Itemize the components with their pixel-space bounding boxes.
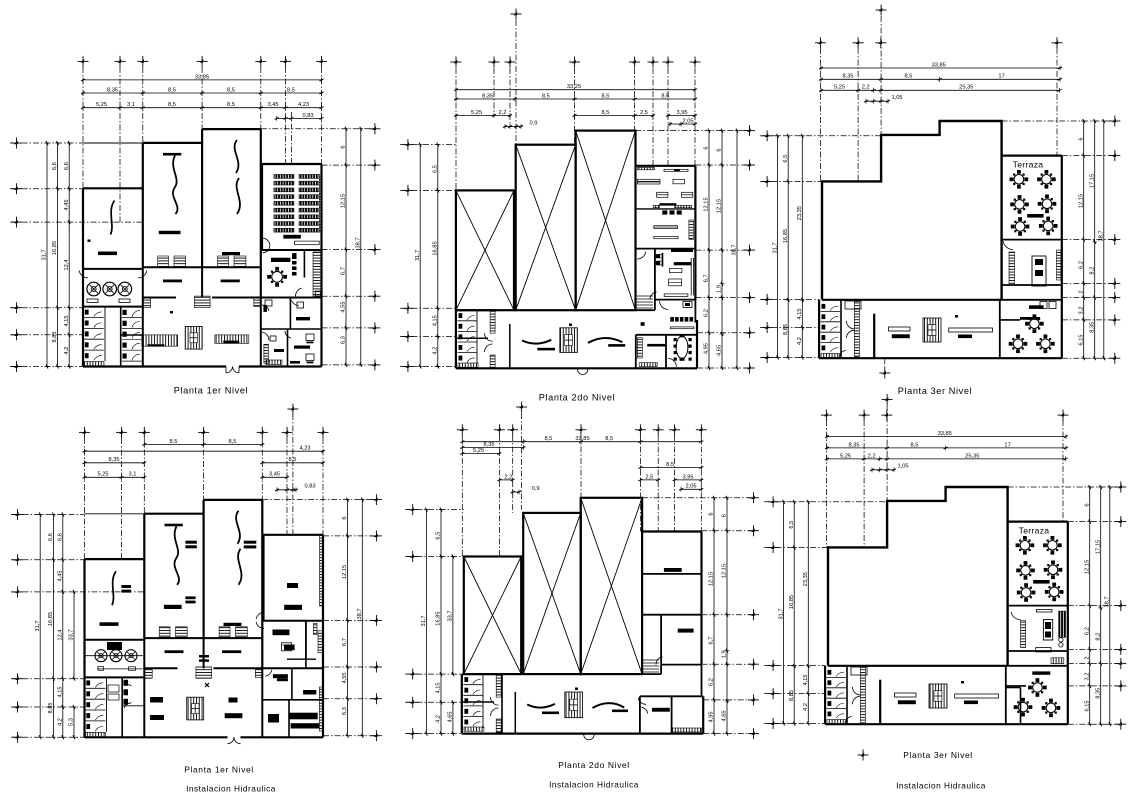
comb under wall plan2	[637, 167, 654, 169]
kitchen door swing a	[79, 271, 88, 278]
right wing walls plan6	[1008, 650, 1068, 652]
box plan4 wc a	[108, 685, 119, 692]
grid line to label plan3	[884, 358, 886, 368]
kitchen counter comb plan6	[1021, 621, 1026, 648]
skylight box3 plan5	[581, 498, 642, 674]
svg-text:0,9: 0,9	[532, 486, 540, 492]
grid line	[10, 307, 83, 309]
dim 0,83 plan1	[277, 117, 322, 119]
grid axis marker plan3 top	[853, 37, 864, 48]
dot lobby plan1	[170, 311, 173, 313]
dim chain plan2 right b	[721, 131, 723, 368]
svg-text:4,15: 4,15	[436, 682, 442, 693]
curtain waves hall2 plan1	[235, 140, 239, 173]
grid line	[400, 336, 456, 338]
grid axis marker plan5 top	[696, 424, 707, 435]
side seat comb plan1	[319, 175, 321, 233]
svg-text:0,9: 0,9	[530, 121, 538, 127]
seat row L	[274, 195, 294, 199]
hatched wall strip plan6	[860, 668, 865, 724]
svg-text:8,5: 8,5	[229, 439, 237, 445]
grid axis marker plan1 top	[137, 56, 148, 67]
svg-text:31,7: 31,7	[772, 242, 778, 253]
dim chain plan6 left b	[807, 502, 809, 724]
svg-text:6,2: 6,2	[1078, 261, 1084, 269]
round table with chairs	[1016, 536, 1035, 555]
grid line	[642, 497, 753, 499]
grid axis marker plan1 right	[369, 322, 380, 333]
svg-text:Planta 3er Nivel: Planta 3er Nivel	[903, 750, 973, 760]
grid line	[1062, 297, 1115, 299]
grid axis marker plan4 top	[139, 427, 150, 438]
svg-text:6,3: 6,3	[341, 336, 347, 344]
grid line	[322, 249, 375, 251]
entry porch plan5	[584, 735, 594, 740]
svg-text:8,35: 8,35	[1095, 688, 1101, 699]
svg-text:12,15: 12,15	[1084, 560, 1090, 574]
dim 31,7 plan1 left	[46, 143, 48, 367]
door swing plan3 corr b	[846, 330, 854, 338]
grid axis marker plan6 right	[1115, 516, 1126, 527]
curve left room plan1	[111, 201, 115, 235]
grid axis marker plan4 tall	[287, 404, 298, 415]
dim row C2 plan4	[262, 462, 323, 464]
urinal row plan3	[821, 354, 840, 358]
grid axis marker plan1 right	[369, 244, 380, 255]
sideboard bar plan1	[271, 258, 290, 262]
grid axis marker plan1 left	[11, 138, 22, 149]
bar strip plan3	[1029, 305, 1044, 309]
curtain wave	[173, 156, 178, 215]
chair plan2 a	[662, 210, 667, 214]
hatched wall plan2 wc a	[490, 310, 495, 333]
chair comb plan2 room	[637, 338, 642, 358]
svg-text:2,2: 2,2	[499, 110, 507, 116]
grid line	[323, 735, 376, 737]
lobby top wall plan1	[143, 297, 176, 299]
grid axis marker plan2 tall	[511, 9, 522, 20]
svg-text:6,5: 6,5	[783, 155, 789, 163]
svg-text:Planta 1er Nivel: Planta 1er Nivel	[184, 765, 254, 775]
dim 5,3 plan4	[73, 707, 75, 737]
bottom band walls plan5	[461, 674, 463, 734]
hatched element	[144, 668, 152, 678]
mark plan2 corridor	[641, 322, 645, 326]
svg-text:8,35: 8,35	[482, 93, 493, 99]
svg-text:8,5: 8,5	[227, 102, 235, 108]
counter bottom plan6	[1036, 648, 1051, 652]
pipe pair a1 plan4	[185, 541, 196, 544]
grid axis marker plan4 left	[12, 732, 23, 743]
seat row L	[274, 215, 294, 219]
grid line	[10, 334, 83, 336]
mid horizontal wall plan1	[143, 266, 261, 268]
tank plan4	[107, 642, 122, 650]
svg-text:6,6: 6,6	[52, 162, 58, 170]
svg-text:Instalacion Hidraulica: Instalacion Hidraulica	[896, 781, 986, 791]
closet wall plan6 a	[1006, 687, 1021, 689]
grid axis marker plan1 top	[280, 56, 291, 67]
svg-text:38,7: 38,7	[357, 608, 363, 619]
dim total plan3	[821, 67, 1060, 69]
grid tall plan5	[521, 413, 523, 510]
left room walls plan1	[83, 187, 143, 189]
dim row B plan4	[85, 450, 324, 452]
main hall outline plan6	[828, 487, 1008, 666]
grid line	[764, 664, 825, 666]
closet wall plan6 b	[1020, 688, 1022, 725]
skylight box2 plan5	[523, 513, 581, 674]
middle hall walls plan1	[143, 142, 202, 144]
grid line	[1068, 663, 1121, 665]
right tall room fixtures plan4	[287, 583, 298, 588]
svg-text:4,2: 4,2	[58, 718, 64, 726]
svg-text:8,85: 8,85	[789, 690, 795, 701]
dim row3c plan2	[668, 115, 695, 117]
grid line	[1008, 486, 1121, 488]
grid axis marker plan5 right	[748, 492, 759, 503]
grid axis marker plan2 top	[505, 57, 516, 68]
floor curve plan2 b	[588, 338, 622, 343]
table bar left room plan1	[98, 252, 117, 256]
grid line	[695, 297, 749, 299]
grid axis marker plan6 top	[881, 410, 892, 421]
dim chain plan5 left	[440, 510, 442, 734]
grid line	[10, 366, 83, 368]
urinal row plan5	[464, 727, 484, 731]
grid axis marker plan5 left	[407, 551, 418, 562]
round table with chairs	[1025, 314, 1044, 333]
grid line	[695, 249, 749, 251]
round table with chairs	[1045, 583, 1064, 602]
svg-text:8,35: 8,35	[483, 442, 494, 448]
svg-text:6,2: 6,2	[1084, 627, 1090, 635]
toilet stalls	[85, 680, 105, 731]
curtain wave	[174, 526, 179, 585]
dim row2 plan1	[83, 92, 322, 94]
dim 31,7 plan3	[777, 136, 779, 358]
bottom marker plan6	[858, 750, 869, 761]
svg-text:4,95: 4,95	[704, 343, 710, 354]
svg-text:16,85: 16,85	[436, 611, 442, 625]
grid line	[636, 130, 750, 132]
svg-text:8,85: 8,85	[783, 324, 789, 335]
hatched element	[827, 720, 846, 724]
svg-text:12,4: 12,4	[64, 259, 70, 270]
grid line	[702, 530, 754, 532]
svg-text:4,2: 4,2	[803, 703, 809, 711]
door swing corridor	[262, 332, 269, 340]
grid axis marker plan3 right	[1109, 234, 1120, 245]
round table with chairs	[1038, 195, 1057, 214]
kitchen door swing b	[138, 271, 147, 278]
svg-text:16,85: 16,85	[52, 241, 58, 255]
svg-text:38,7: 38,7	[732, 244, 738, 255]
svg-text:6: 6	[1084, 503, 1090, 506]
dot plan5	[575, 688, 578, 691]
svg-text:6,7: 6,7	[704, 274, 710, 282]
svg-text:17,15: 17,15	[1089, 174, 1095, 188]
svg-text:33,7: 33,7	[448, 610, 454, 621]
door swing plan2 wc b	[485, 344, 493, 352]
grid axis marker plan6 right	[1115, 658, 1126, 669]
dim 38,7 plan2	[736, 131, 738, 368]
seat row L	[274, 222, 294, 226]
svg-text:2,2: 2,2	[504, 474, 512, 480]
right wall comb plan4	[320, 536, 324, 606]
grid line	[509, 68, 511, 127]
kitchen top wall plan1	[83, 268, 143, 270]
svg-text:4,95: 4,95	[709, 711, 715, 722]
dim 0,9 plan2	[505, 126, 521, 128]
grid axis marker plan3 right	[1109, 150, 1120, 161]
round table with chairs	[1039, 217, 1058, 236]
fixture below auditorium	[292, 253, 296, 257]
door swing plan2 corridor	[637, 252, 646, 259]
grid line	[697, 367, 750, 369]
grid axis marker plan6 tall	[882, 394, 893, 405]
right-top block walls plan2	[636, 165, 696, 167]
dim total plan6	[827, 436, 1066, 438]
grid line	[143, 438, 145, 514]
entrance double door plan1	[226, 367, 232, 373]
grid axis marker plan5 top	[669, 424, 680, 435]
grid line	[1062, 357, 1115, 359]
central staircase plan5	[565, 692, 583, 718]
pipe line plan4 b	[97, 668, 143, 670]
dim 0,9 plan5	[513, 491, 519, 493]
grid line	[703, 733, 753, 735]
grid line	[760, 135, 881, 137]
bottom wall plan1	[83, 365, 226, 367]
office door swing plan1	[292, 300, 300, 305]
grid line	[657, 435, 659, 532]
seat row R	[299, 181, 319, 185]
lobby hydraulic bars plan4	[150, 697, 163, 703]
grid axis marker plan1 top	[316, 56, 327, 67]
waves hall2 plan4	[236, 511, 240, 544]
grid axis marker plan4 right	[371, 530, 382, 541]
dim row2 plan2	[456, 98, 695, 100]
svg-text:3,45: 3,45	[267, 102, 278, 108]
slab edge plan4	[85, 513, 145, 515]
pipe pair a2 plan4	[185, 596, 195, 599]
round table with chairs	[1009, 335, 1028, 354]
grid line	[1068, 685, 1121, 687]
svg-text:2: 2	[1084, 656, 1090, 659]
auditorium walls plan1	[262, 163, 322, 165]
dot left room plan1	[88, 240, 91, 242]
grid line	[11, 591, 144, 593]
svg-text:3,95: 3,95	[682, 474, 693, 480]
dim chain plan3 left b	[801, 136, 803, 358]
svg-text:1,05: 1,05	[891, 95, 902, 101]
grid axis marker plan5 right	[748, 609, 759, 620]
grid axis marker plan2 right	[744, 363, 755, 374]
skylight box 3 plan2	[576, 131, 636, 311]
svg-text:3,45: 3,45	[269, 472, 280, 478]
urinal row plan1	[84, 362, 104, 367]
dining/office walls plan4	[262, 667, 323, 669]
hatched wall plan2 wc b	[490, 355, 495, 368]
grid axis marker plan3 right	[1109, 116, 1120, 127]
svg-text:Instalacion Hidraulica: Instalacion Hidraulica	[186, 784, 276, 794]
svg-text:12,4: 12,4	[58, 629, 64, 640]
svg-text:6,7: 6,7	[341, 267, 347, 275]
svg-text:33,85: 33,85	[938, 431, 952, 437]
grid line	[322, 327, 375, 329]
stair flight plan1 a	[158, 256, 169, 266]
grid line	[695, 164, 749, 166]
grid axis marker plan1 top	[255, 56, 266, 67]
svg-text:31,7: 31,7	[778, 608, 784, 619]
wall stub plan3	[873, 314, 875, 359]
grid axis marker plan2 top	[489, 57, 500, 68]
svg-text:8,5: 8,5	[287, 87, 295, 93]
grid axis marker plan2 top	[648, 57, 659, 68]
dim 3,95 plan5	[675, 479, 702, 481]
stage bar plan1	[283, 235, 301, 239]
svg-text:4,15: 4,15	[803, 674, 809, 685]
pipe pair d plan4	[199, 655, 209, 658]
svg-text:6: 6	[722, 514, 728, 517]
toilet block inner walls plan1	[120, 307, 122, 367]
door swing plan2 wc a	[485, 333, 493, 341]
svg-text:8,5: 8,5	[605, 436, 613, 442]
svg-text:2,2: 2,2	[862, 85, 870, 91]
svg-text:6: 6	[341, 145, 347, 148]
svg-text:2,5: 2,5	[640, 110, 648, 116]
svg-text:4,45: 4,45	[64, 199, 70, 210]
dim row3 plan1	[83, 107, 322, 109]
grid line	[11, 736, 85, 738]
dim row2 plan3	[821, 78, 1060, 80]
corridor stair steps plan2	[636, 295, 654, 297]
grid axis G plan1	[321, 67, 323, 164]
grid line	[121, 438, 123, 559]
cabinet plan3	[845, 301, 861, 309]
dark counter plan2	[671, 249, 693, 252]
grid line	[702, 663, 754, 665]
svg-text:6,15: 6,15	[1078, 334, 1084, 345]
round table with chairs	[1028, 678, 1047, 697]
svg-text:8,35: 8,35	[842, 74, 853, 80]
closet wall plan4	[305, 620, 307, 659]
svg-text:2,05: 2,05	[682, 118, 693, 124]
seat row R	[299, 222, 319, 226]
dim row A plan4	[144, 444, 262, 446]
svg-text:8,35: 8,35	[108, 457, 119, 463]
door swing plan4 right	[256, 622, 264, 629]
grid axis marker plan4 right	[371, 615, 382, 626]
counter plan3	[1009, 252, 1015, 285]
dim chain plan3 left a	[787, 136, 789, 358]
round table with chairs	[1044, 561, 1063, 580]
svg-text:8,85: 8,85	[52, 331, 58, 342]
grid axis marker plan2 left	[402, 361, 413, 372]
svg-text:4,2: 4,2	[64, 347, 70, 355]
grid axis marker plan2 top	[663, 57, 674, 68]
svg-text:6,3: 6,3	[342, 707, 348, 715]
grid line	[863, 420, 865, 547]
bar mid hall plan4	[164, 605, 182, 609]
grid line	[1068, 648, 1121, 650]
grid tall plan3	[880, 16, 882, 135]
svg-text:8,5: 8,5	[227, 87, 235, 93]
svg-text:12,15: 12,15	[341, 194, 347, 208]
dim 31,7 plan6	[783, 502, 785, 724]
door swing low office	[285, 331, 291, 338]
seat row R	[299, 228, 319, 232]
svg-text:4,65: 4,65	[448, 711, 454, 722]
wc fixture plan1	[263, 305, 267, 312]
svg-text:33,85: 33,85	[575, 436, 589, 442]
stair flight plan1 c	[218, 256, 229, 266]
svg-text:Instalacion Hidraulica: Instalacion Hidraulica	[549, 780, 639, 790]
seat row R	[299, 201, 319, 205]
svg-text:6,6: 6,6	[58, 533, 64, 541]
conference chairs row plan2	[670, 317, 674, 322]
long table plan3 a	[889, 327, 911, 331]
svg-text:8,2: 8,2	[1095, 633, 1101, 641]
podium plan1	[295, 241, 320, 245]
svg-text:8,5: 8,5	[666, 462, 674, 468]
dining area plan4	[282, 643, 292, 651]
dim chain plan2 right a	[708, 131, 710, 368]
dim 33,7 plan5	[452, 557, 454, 675]
grid line	[512, 435, 514, 513]
bar plan5 bottom right	[652, 708, 670, 712]
grid axis marker plan5 right	[748, 659, 759, 670]
desk bar low office	[294, 346, 310, 349]
wc fixture right col	[123, 310, 127, 315]
grid line	[697, 332, 750, 334]
svg-text:33,25: 33,25	[567, 84, 581, 90]
stair flight plan1 d	[234, 256, 246, 266]
grid axis marker plan4 right	[371, 693, 382, 704]
central staircase plan1	[185, 326, 202, 349]
seat row L	[274, 201, 294, 205]
grid axis F2 plan1	[290, 112, 292, 164]
svg-text:6,15: 6,15	[1084, 700, 1090, 711]
svg-text:2,2: 2,2	[868, 453, 876, 459]
grid line	[286, 438, 288, 535]
svg-text:17,15: 17,15	[1095, 540, 1101, 554]
svg-text:8,5: 8,5	[544, 436, 552, 442]
svg-text:4,55: 4,55	[341, 301, 347, 312]
bottom band walls plan2	[455, 310, 457, 368]
right wall comb low plan4	[319, 687, 322, 731]
svg-text:3,95: 3,95	[676, 110, 687, 116]
dim row C1 plan4	[85, 462, 145, 464]
shelf strip ladder plan1	[313, 252, 321, 296]
svg-text:5,25: 5,25	[834, 85, 845, 91]
grid axis marker plan6 left	[768, 688, 779, 699]
grid axis marker plan3 left	[762, 130, 773, 141]
skylight box 1 plan2	[456, 190, 514, 310]
grid axis marker plan4 left	[12, 586, 23, 597]
svg-text:6,7: 6,7	[342, 638, 348, 646]
door swing plan3 corr a	[846, 321, 854, 329]
svg-text:6,6: 6,6	[64, 162, 70, 170]
grid axis marker plan2 top	[569, 57, 580, 68]
svg-text:5,25: 5,25	[473, 448, 484, 454]
svg-text:4,15: 4,15	[797, 308, 803, 319]
sink plan6 b	[1059, 643, 1063, 647]
cafeteria table bank A	[142, 335, 178, 346]
terraza walls plan3	[1002, 155, 1062, 157]
seat row R	[299, 208, 319, 212]
